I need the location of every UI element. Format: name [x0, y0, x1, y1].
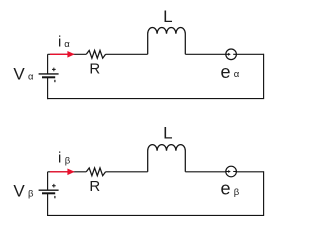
label alpha subscript of e [234, 69, 240, 80]
svg-text:i: i [58, 33, 61, 50]
label L (alpha inductor) [163, 7, 172, 26]
battery V_alpha minus tick [54, 80, 56, 82]
resistor R (beta) [86, 168, 105, 176]
svg-text:V: V [13, 65, 25, 84]
svg-text:e: e [221, 62, 231, 82]
svg-text:α: α [64, 39, 70, 50]
svg-text:i: i [58, 149, 61, 166]
wire source-to-right-corner (alpha) [236, 53, 263, 55]
wire upper-left vertical (alpha) [47, 54, 49, 74]
label alpha subscript of V [28, 71, 34, 82]
svg-text:α: α [28, 71, 34, 82]
svg-text:R: R [89, 178, 100, 195]
svg-text:R: R [89, 60, 100, 77]
label R (beta resistor) [89, 178, 100, 195]
source e_alpha circle [226, 49, 237, 60]
label alpha subscript of i [64, 39, 70, 50]
label e (alpha emf) [221, 62, 231, 82]
current arrow i_beta (red) [50, 169, 75, 176]
wire resistor-to-inductor (alpha) [106, 53, 148, 55]
wire right side and bottom (beta) [48, 171, 264, 215]
svg-text:e: e [221, 178, 231, 198]
label V (alpha source) [13, 65, 25, 84]
current arrow i_alpha (red) [50, 51, 75, 58]
svg-text:V: V [13, 182, 25, 201]
inductor L (beta) [148, 145, 186, 172]
wire lower-left vertical (alpha) [47, 77, 49, 99]
battery V_alpha bottom plate [42, 76, 55, 78]
svg-text:L: L [163, 7, 172, 26]
label beta subscript of V [28, 189, 34, 200]
battery V_alpha plus sign [52, 68, 56, 72]
wire right side and bottom (alpha) [48, 54, 264, 99]
wire resistor-to-inductor (beta) [106, 171, 148, 173]
battery V_beta bottom plate [42, 192, 55, 194]
wire inductor-to-source (alpha) [185, 53, 226, 55]
svg-text:β: β [234, 187, 240, 198]
wire top-left segment (circuit beta) [48, 171, 87, 173]
wire source-to-right-corner (beta) [236, 171, 263, 173]
inductor L (alpha) [148, 28, 186, 55]
battery V_beta minus tick [54, 196, 56, 198]
label beta subscript of i [65, 156, 71, 167]
svg-text:β: β [65, 156, 71, 167]
label beta subscript of e [234, 187, 240, 198]
svg-text:L: L [163, 124, 172, 143]
battery V_beta plus sign [52, 184, 56, 188]
label e (beta emf) [221, 178, 231, 198]
wire upper-left vertical (beta) [47, 172, 49, 190]
wire inductor-to-source (beta) [185, 171, 226, 173]
label L (beta inductor) [163, 124, 172, 143]
wire lower-left vertical (beta) [47, 194, 49, 216]
svg-text:α: α [234, 69, 240, 80]
source e_alpha internal stubs and arrowhead [226, 53, 237, 56]
label V (beta source) [13, 182, 25, 201]
svg-text:β: β [28, 189, 34, 200]
label R (alpha resistor) [89, 60, 100, 77]
battery V_beta top plate [39, 189, 59, 191]
label i (alpha current) [58, 33, 61, 50]
wire top-left segment (circuit alpha) [48, 53, 87, 55]
source e_beta circle [226, 166, 237, 177]
label i (beta current) [58, 149, 61, 166]
resistor R (alpha) [86, 50, 105, 58]
source e_beta internal stubs and arrowhead [226, 170, 237, 173]
battery V_alpha top plate [39, 73, 59, 75]
